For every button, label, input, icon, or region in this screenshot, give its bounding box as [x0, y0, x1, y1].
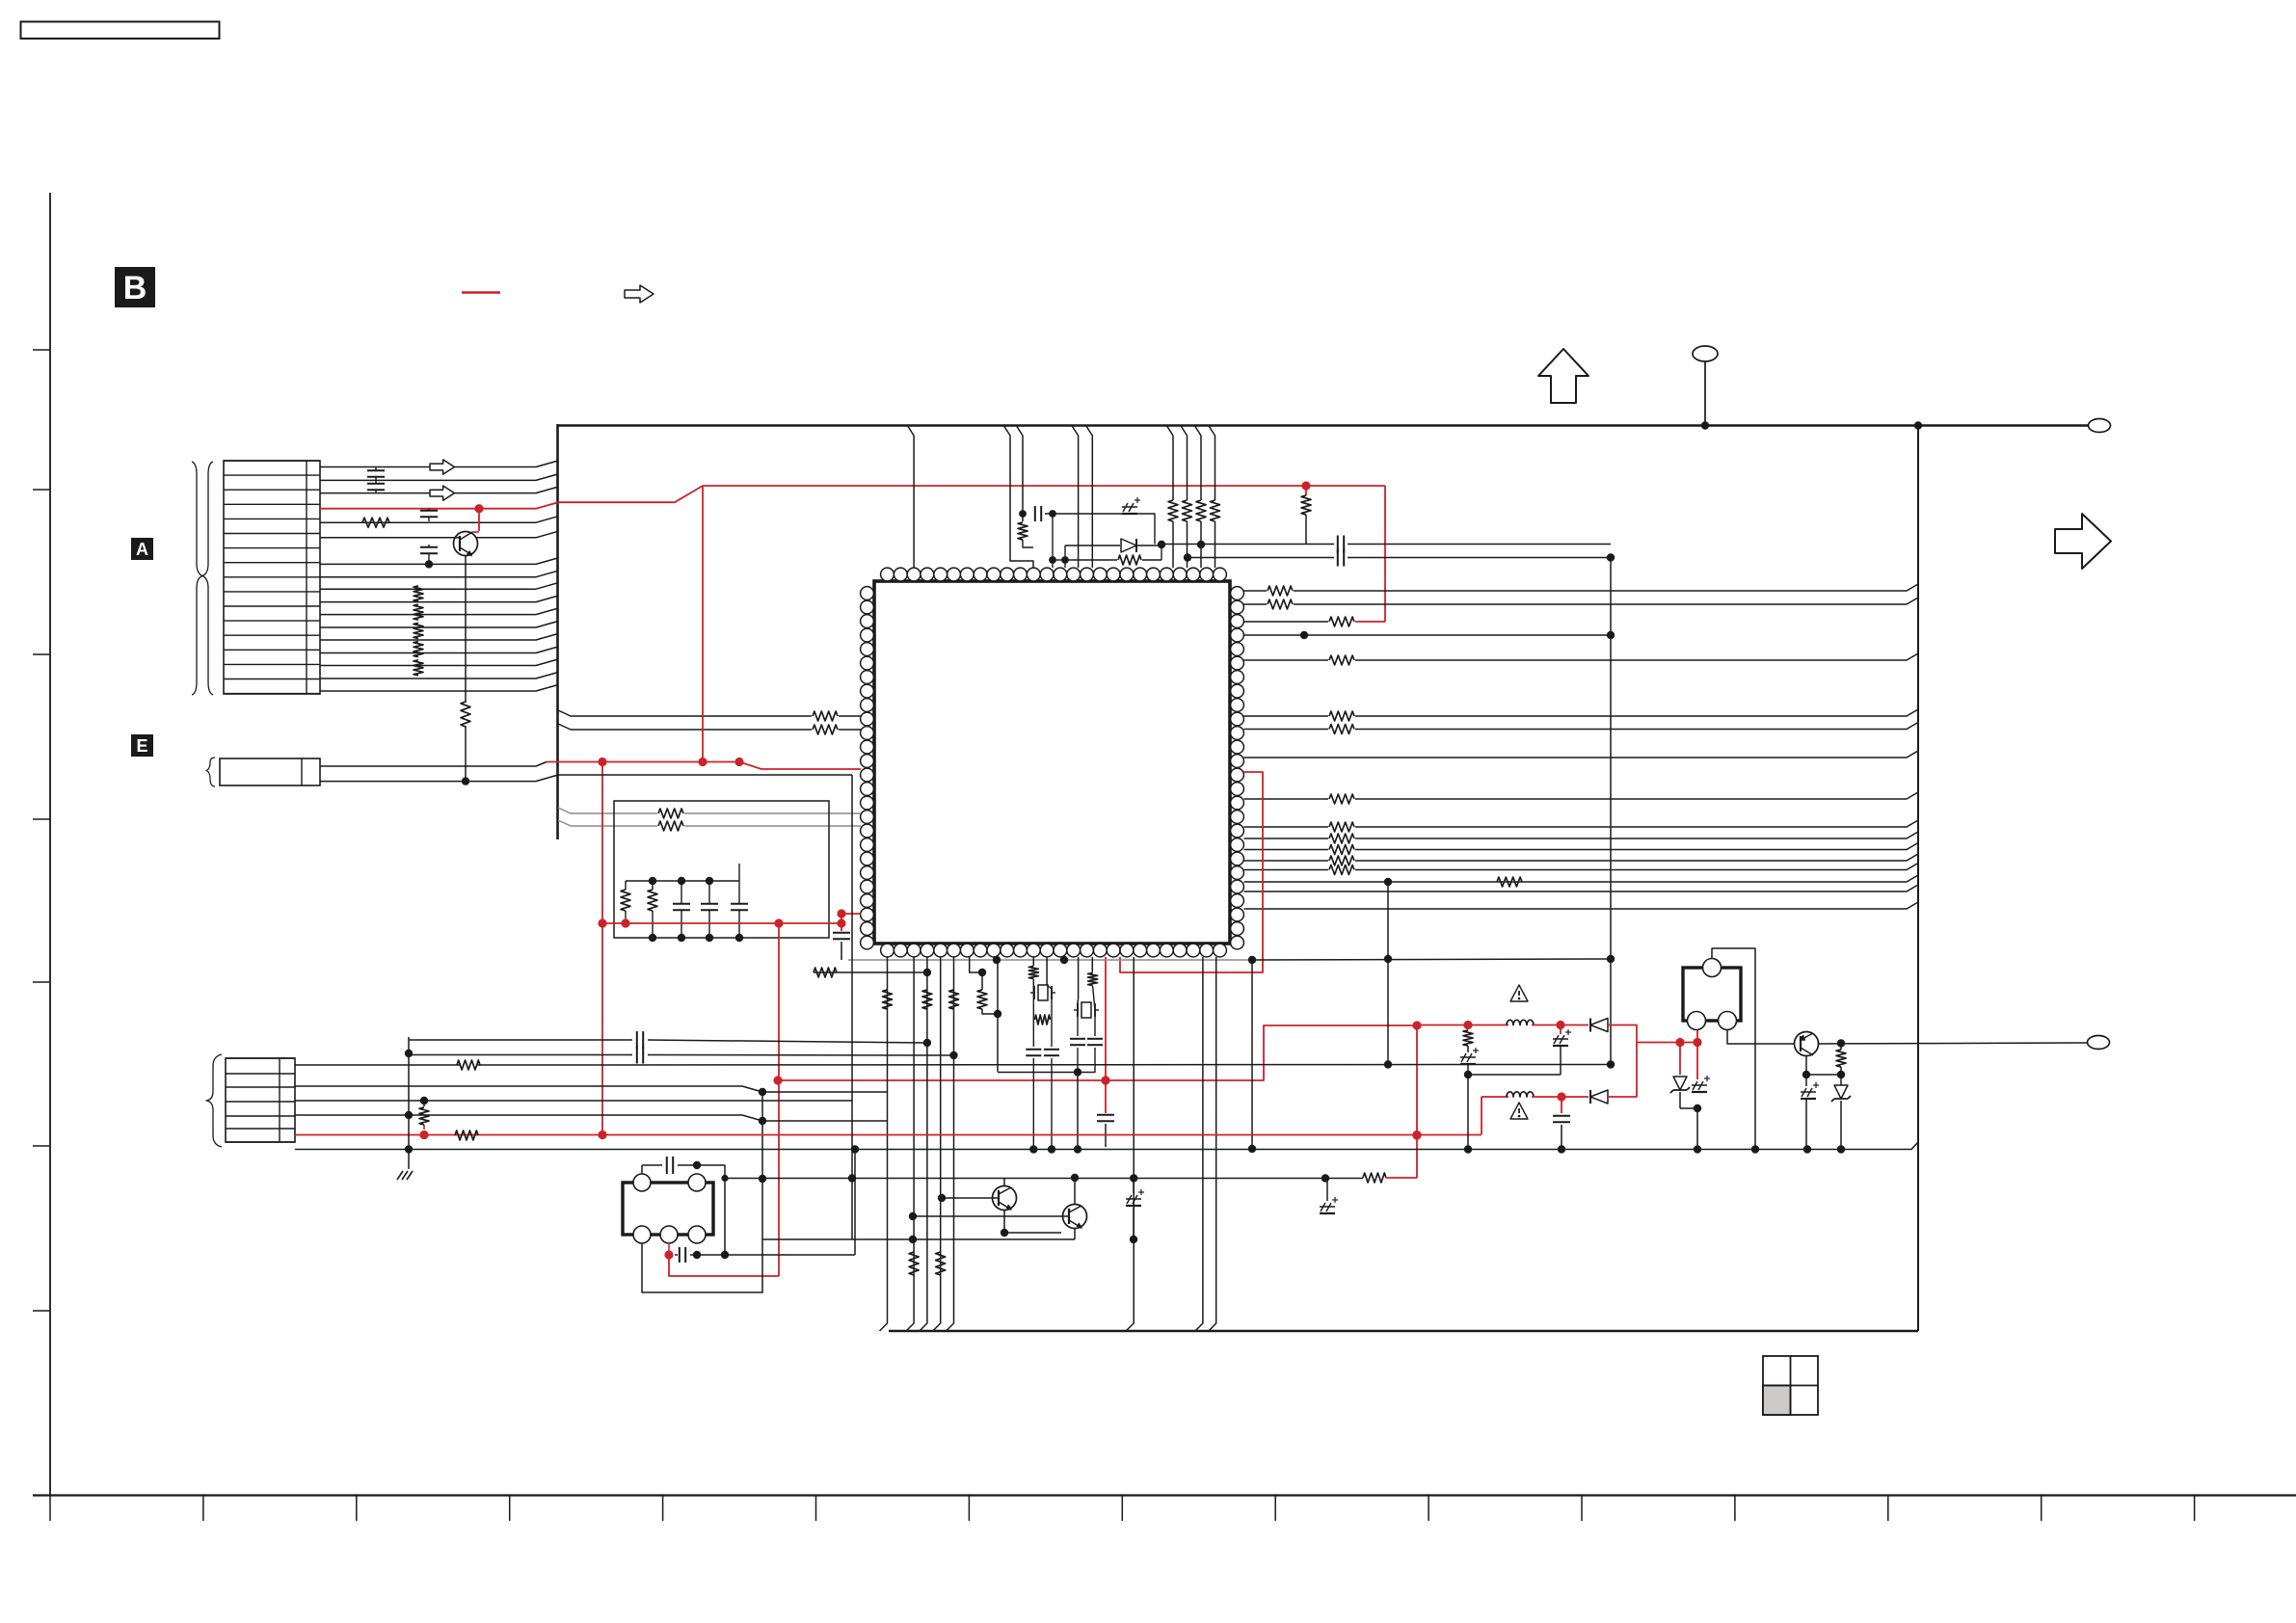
red jog inside — [558, 486, 703, 502]
wire Q2 c — [1003, 1178, 1005, 1186]
ic U1 top pins — [881, 568, 894, 581]
resistor R_q1e — [461, 702, 470, 727]
frame left border — [49, 193, 51, 1495]
terminal ellipse right — [2088, 1036, 2110, 1050]
crystal X3 — [1081, 1002, 1091, 1018]
resistor R_x0 — [1032, 957, 1034, 966]
red node e3 — [734, 758, 743, 766]
resistor R_l4 — [658, 821, 683, 831]
capacitor C_p2 — [1561, 1097, 1562, 1113]
wire u1-left in3 — [558, 808, 657, 813]
capacitor C_x4 — [1046, 957, 1048, 985]
red node rail3 — [837, 918, 845, 927]
capacitor C_t1 — [1034, 506, 1036, 521]
wire Q4 emitter — [1805, 1056, 1807, 1076]
capacitor C_a4 — [420, 546, 438, 548]
wire osc top right — [697, 1165, 725, 1251]
resistor R_a1 — [362, 518, 389, 527]
capacitor C_c2 — [701, 903, 718, 905]
diode D2 — [1590, 1090, 1608, 1104]
red node rail1 — [598, 918, 606, 927]
red node e1 — [598, 758, 606, 766]
red node osc — [664, 1250, 673, 1259]
frame bottom border — [33, 1494, 2296, 1496]
connector CN-E wire1 — [320, 762, 547, 767]
wire xtal common — [998, 1072, 1095, 1074]
red bus 2 — [1532, 1024, 1589, 1026]
zener ZD2 — [1834, 1085, 1848, 1099]
resistor bank RA1-RA5 — [414, 586, 423, 601]
connector CN-B brace — [206, 1054, 222, 1147]
zone marker B — [115, 267, 155, 307]
svg-text:B: B — [123, 270, 147, 306]
wire B3 — [295, 1100, 852, 1102]
net-box bottom bus — [889, 1330, 1918, 1333]
diode D_t2 — [1121, 539, 1136, 552]
resistor R_n1 — [814, 968, 837, 977]
wire xtal1 right — [1051, 993, 1053, 1047]
wire L1279 — [1004, 1232, 1061, 1234]
wire B4 — [295, 1115, 887, 1121]
transistor Q4 — [1795, 1032, 1819, 1056]
wire u1-left in1 — [558, 710, 812, 716]
wire xtal2 left — [1077, 957, 1080, 1010]
page locator grid — [1763, 1356, 1818, 1415]
net-box right edge — [1917, 426, 1919, 1332]
resonator X1 pins — [633, 1174, 651, 1191]
capacitor C_t3 — [1337, 549, 1339, 567]
red bus 5 — [1608, 1043, 1637, 1098]
resistor R_b2 — [922, 990, 932, 1009]
wire B2 — [295, 1086, 887, 1092]
wire osc c2 — [668, 1243, 670, 1255]
connector CN-E body — [220, 758, 320, 785]
net D9 — [1244, 849, 1329, 851]
wire U1pin to bus e — [1209, 957, 1216, 1331]
red relay link — [1696, 1030, 1698, 1043]
red node p1 — [1412, 1131, 1421, 1139]
wire p1 — [1468, 1074, 1561, 1076]
red node b1 — [1101, 1076, 1109, 1084]
wire p2 — [1467, 1075, 1469, 1149]
wire Q3 c — [1074, 1178, 1076, 1205]
red riser L2 — [1481, 1097, 1482, 1134]
wire y564 — [1161, 544, 1334, 545]
red link pin — [841, 914, 842, 923]
red node e2 — [698, 758, 707, 766]
wire pin stub b — [1053, 559, 1065, 561]
terminal ellipse top-right — [2089, 419, 2111, 433]
wire y533 — [1045, 513, 1122, 515]
wire y579 right — [1348, 557, 1611, 559]
capacitor C_x1 — [1077, 1010, 1079, 1036]
red bus drop left — [702, 486, 704, 761]
net D5 — [1244, 751, 1919, 758]
resistor R_b5 — [909, 1252, 919, 1275]
wire y564 right — [1348, 544, 1611, 545]
net D6 — [1244, 798, 1329, 800]
connector CN-A brace right — [202, 462, 213, 695]
wire Q4 out — [1818, 1043, 2088, 1044]
net D0 — [1244, 590, 1268, 592]
capacitor C_p1 — [1460, 1063, 1476, 1065]
wire B6 ground bus — [295, 1142, 1918, 1150]
wire osc to right — [725, 1254, 855, 1256]
node t4 — [1184, 553, 1191, 561]
capacitor C_p4 — [1801, 1098, 1816, 1100]
relay RY1 pins — [1703, 959, 1722, 977]
ic U1 right pins — [1231, 587, 1244, 600]
wire Q3 base — [913, 1215, 1061, 1217]
net D7 — [1244, 826, 1329, 828]
frame title box — [21, 22, 220, 40]
capacitor C_p6 — [1553, 1045, 1568, 1047]
resistor R_p1 — [1467, 1025, 1469, 1030]
node Q1e-E2 — [462, 777, 469, 785]
wire p3 — [1806, 1074, 1841, 1076]
resistor R_b6 — [936, 1252, 946, 1275]
wire C1076 — [409, 1039, 632, 1041]
wire Q3 e — [1074, 1229, 1076, 1240]
red bus top — [703, 485, 1385, 487]
resistor R_x2 — [1091, 957, 1093, 972]
relay wire top — [1712, 948, 1755, 1149]
svg-text:A: A — [136, 540, 148, 559]
net D8 — [1244, 838, 1329, 839]
resistor R_b3 — [949, 990, 959, 1009]
connector CN-A brace left — [192, 462, 202, 695]
transistor Q3 — [1063, 1205, 1087, 1229]
net line659 — [1244, 634, 1612, 636]
svg-text:E: E — [136, 736, 147, 756]
relay RY1 body — [1683, 968, 1741, 1021]
wire n1009 — [814, 971, 927, 973]
capacitor C_e1 — [1126, 1205, 1141, 1207]
wire B5 red — [295, 1134, 1482, 1136]
resistor R_l3 — [658, 809, 683, 818]
top supply bus — [557, 424, 2089, 427]
red bus 4 — [1532, 1096, 1589, 1098]
connector CN-B body — [226, 1058, 295, 1142]
capacitor C_a3 — [420, 510, 438, 512]
wire u1-left in4 — [558, 820, 657, 826]
wire xtal1 left — [1032, 992, 1035, 994]
legend arrow — [625, 285, 654, 303]
red link bottom pin — [1105, 957, 1107, 1080]
wire y578 — [1188, 557, 1334, 559]
red E wire — [547, 762, 861, 770]
wire L1222 — [725, 1178, 1363, 1180]
red power bus — [1417, 1024, 1468, 1026]
capacitor C_c3 — [731, 903, 748, 905]
net D12 — [1244, 875, 1919, 882]
red link right pins — [1120, 772, 1263, 972]
net D10 — [1244, 860, 1329, 862]
vertical x1440 — [1387, 882, 1389, 1065]
capacitor C_a2 — [367, 483, 385, 485]
frame bottom ticks — [49, 1495, 51, 1521]
connector CN-A wires — [320, 461, 558, 467]
crystal X2 — [1038, 985, 1048, 1000]
cluster bottom dots — [649, 934, 656, 942]
capacitor C_c1 — [673, 903, 690, 905]
wire U1pin to bus d — [1195, 957, 1203, 1331]
resistor bank RT1-RT4 — [1168, 500, 1178, 521]
red stub to R_r1 — [1305, 486, 1307, 495]
transistor Q2 — [993, 1186, 1017, 1211]
node t5 — [1197, 541, 1205, 548]
net D1 — [1244, 603, 1268, 605]
ic U1 bottom pins — [881, 944, 894, 957]
node t3 — [1158, 541, 1165, 548]
frame left ticks — [33, 349, 50, 351]
resistor R_p2 — [1836, 1050, 1846, 1067]
capacitor C_e2 — [1320, 1212, 1335, 1214]
red node r1 — [1301, 481, 1310, 490]
wire R_b4 chain — [970, 957, 982, 972]
ic U1 body — [874, 581, 1230, 944]
signal arrow a1 — [430, 460, 455, 474]
wires top bus to U1 pins a — [907, 425, 914, 568]
vertical x1671 — [1610, 558, 1612, 1063]
resistor R_b1 — [883, 990, 893, 1009]
resistor R_t0 — [1018, 522, 1028, 540]
node a4-a7 — [425, 560, 433, 568]
wire B1 — [295, 1064, 461, 1066]
net D13 — [1244, 885, 1919, 891]
terminal ellipse VCC — [1693, 346, 1718, 361]
filter cluster box — [614, 801, 829, 938]
wire U1pin to bus c — [1126, 957, 1134, 1331]
wire Q2 base — [942, 1197, 993, 1199]
resistor R_r1 — [1301, 495, 1311, 515]
varicap D_t1 — [1122, 513, 1137, 515]
capacitor C_red — [841, 923, 842, 931]
red tail L1222 — [1386, 1177, 1417, 1179]
node red A — [474, 504, 483, 513]
resistor R_l2 — [813, 725, 838, 734]
resistor R_B3 — [423, 1101, 425, 1106]
net D2 — [1244, 659, 1329, 661]
capacitor C_x2 — [1094, 1010, 1096, 1036]
signal arrow a2 — [430, 486, 455, 500]
zener ZD1 — [1679, 1043, 1681, 1076]
red osc link — [669, 1255, 779, 1276]
resistor R_t2 — [1118, 555, 1141, 565]
connector CN-E wire2 — [320, 775, 558, 782]
net D4 — [1244, 729, 1329, 731]
inductor L1 — [1507, 1020, 1534, 1024]
wire Q2 e — [1010, 1210, 1012, 1233]
wire u1-left in2 — [558, 724, 812, 730]
resistor R_L1 — [1363, 1173, 1386, 1183]
wire Q1 emitter — [465, 556, 467, 704]
arrow to other sheet (right) — [2055, 514, 2111, 569]
wire x1035 — [997, 960, 999, 1072]
cluster top rail — [626, 880, 739, 882]
capacitor C_t2 — [1337, 536, 1339, 553]
wire top drop d — [1016, 425, 1023, 521]
red node rail2 — [774, 918, 783, 927]
capacitor C_x3 — [1032, 1020, 1034, 1047]
ic U1 left pins — [861, 587, 874, 600]
wires top bus to U1 pins b — [1166, 425, 1173, 500]
resistor R_x1 — [1035, 1015, 1051, 1024]
net line645 — [1244, 621, 1329, 623]
connector CN-A body — [224, 461, 320, 694]
wire C1093 — [409, 1054, 632, 1056]
capacitor C_o1 — [641, 1165, 643, 1174]
resistor R_B5 — [455, 1131, 478, 1140]
wire osc left down — [642, 1092, 762, 1292]
resistor R_l1 — [813, 711, 838, 721]
resistor R_c2 — [648, 890, 657, 911]
zone marker A — [131, 538, 153, 560]
net D11 — [1244, 869, 1329, 871]
red riser x1470 — [1416, 1025, 1418, 1178]
net D14 — [1244, 902, 1919, 909]
warning mark 2 — [1510, 1103, 1528, 1119]
zone marker E — [131, 734, 153, 757]
wires U1 bottom to bus — [880, 957, 888, 1331]
wire red to Q1 — [478, 509, 480, 531]
inductor L2 — [1507, 1092, 1534, 1097]
wire E2 inside — [558, 774, 852, 776]
resistor R_c1 — [621, 890, 630, 911]
red bus right drop — [1384, 486, 1386, 622]
capacitor C_p3 — [1692, 1091, 1707, 1093]
capacitor C_b1 — [1105, 1080, 1107, 1113]
wire pin stub a — [1052, 514, 1054, 568]
diode D1 — [1590, 1019, 1608, 1032]
net-box left edge — [556, 424, 559, 839]
red route to power — [778, 1025, 1419, 1080]
ground bus dots — [405, 1145, 413, 1153]
node R_c1 red — [621, 918, 629, 927]
red vertical left — [601, 762, 603, 1135]
red bus 3 — [1608, 1025, 1697, 1043]
wire x1299 drop — [1251, 960, 1253, 1149]
arrow to other sheet (up) — [1538, 349, 1589, 403]
resonator X1 body — [623, 1183, 713, 1235]
red rail mid — [602, 922, 841, 924]
relay wire right pin — [1727, 1030, 1795, 1045]
transistor Q1 — [454, 532, 478, 556]
red node p0 — [1412, 1021, 1421, 1029]
red link to line645 — [1355, 621, 1385, 623]
legend red wire sample — [462, 291, 500, 294]
wire gnd branch — [408, 1037, 410, 1169]
vertical x884 — [851, 775, 853, 1239]
wire ground gray — [848, 959, 1252, 961]
wire top drop c — [1003, 425, 1033, 568]
net D3 — [1244, 715, 1329, 717]
node on top bus — [1914, 421, 1922, 429]
red drop to osc — [778, 923, 780, 1276]
warning mark 1 — [1510, 985, 1528, 1001]
wire varicap tail — [1137, 514, 1155, 545]
wire L1286 — [762, 1238, 1075, 1240]
capacitor C_a1 — [367, 469, 385, 471]
wire CN-A pin4 (red) — [320, 502, 558, 509]
